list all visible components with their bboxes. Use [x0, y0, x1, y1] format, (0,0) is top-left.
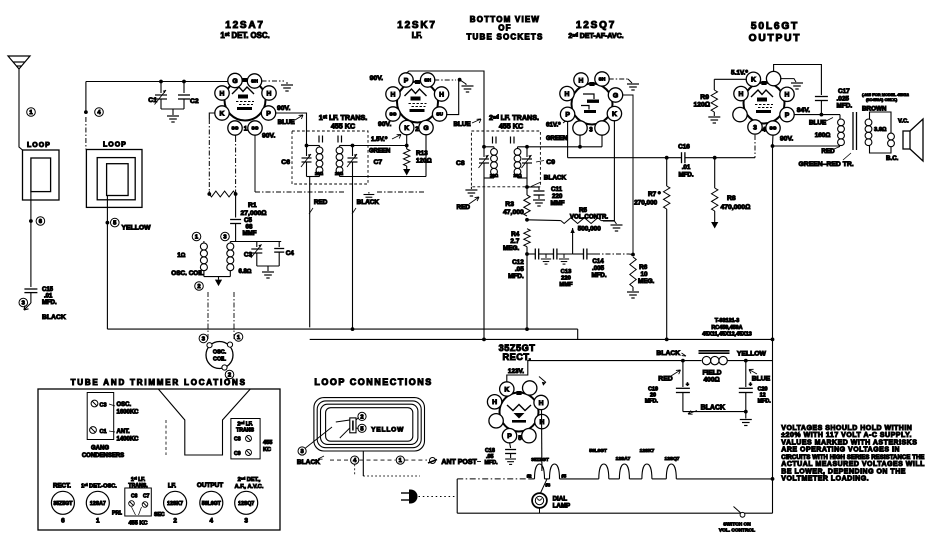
svg-text:12SA7: 12SA7 — [225, 20, 265, 31]
2nd IF transformer shield box (dashed) — [471, 131, 540, 187]
svg-text:C12: C12 — [512, 259, 524, 266]
tube V2 12SK7 pin K — [400, 120, 414, 134]
tube V2 12SK7 pin P — [399, 73, 413, 87]
tube V4 50L6GT pin SG — [766, 121, 780, 135]
wire V5 cathode to heater feed — [507, 361, 683, 383]
svg-text:1Ω: 1Ω — [177, 252, 185, 259]
loop connections nested outline — [314, 398, 425, 451]
wire V5 heater to filament string — [541, 409, 543, 471]
svg-text:C9: C9 — [546, 159, 555, 166]
gang condenser box — [87, 393, 114, 440]
svg-text:LOOP: LOOP — [27, 142, 51, 149]
svg-text:35Z5GT: 35Z5GT — [531, 457, 549, 463]
wire V4 cathode to R9 — [714, 78, 747, 80]
tube V4 50L6GT pin H — [780, 87, 794, 101]
svg-text:R1: R1 — [248, 202, 257, 209]
svg-text:P: P — [507, 433, 512, 440]
svg-text:BLUE: BLUE — [454, 121, 471, 128]
svg-text:50L6GT: 50L6GT — [751, 21, 799, 32]
wire C19 to C20 common (BLACK) — [683, 411, 746, 413]
svg-text:SG: SG — [232, 126, 239, 132]
node 4 panel — [351, 456, 359, 464]
1st IF transformer shield box (dashed) — [292, 131, 368, 184]
svg-text:R3: R3 — [505, 201, 514, 208]
power circuit box with filament string — [456, 479, 458, 513]
svg-text:C13: C13 — [561, 269, 572, 275]
wire V1 plate to 1st IF primary — [275, 113, 306, 145]
tube locations panel box — [38, 389, 280, 530]
svg-text:C7: C7 — [143, 494, 150, 500]
svg-text:12SK7: 12SK7 — [397, 20, 437, 31]
node R8 top — [713, 156, 717, 160]
svg-text:FIELD: FIELD — [703, 370, 722, 377]
dial lamp — [532, 493, 547, 508]
svg-text:VALUES MARKED WITH ASTERISKS: VALUES MARKED WITH ASTERISKS — [781, 439, 917, 446]
svg-text:R9: R9 — [700, 94, 709, 101]
svg-text:2​ⁿᵈ DET.,: 2​ⁿᵈ DET., — [238, 476, 261, 483]
wire loop2 top to grid bus — [85, 82, 87, 113]
tube V1 12SA7 pin H — [262, 86, 276, 100]
svg-text:H: H — [220, 90, 225, 97]
oscillator coil T3 secondary — [229, 242, 231, 244]
wire V5 plate to C18 — [510, 442, 511, 448]
svg-text:1​ˢᵗ DET.-OSC.: 1​ˢᵗ DET.-OSC. — [81, 483, 117, 490]
power plug — [409, 490, 418, 504]
svg-text:H: H — [439, 91, 444, 98]
svg-text:T-93131-3: T-93131-3 — [715, 318, 740, 324]
svg-text:ANT.: ANT. — [117, 429, 131, 435]
capacitor C14 .005 MFD — [573, 253, 584, 255]
svg-text:SH: SH — [599, 77, 606, 83]
svg-text:90V.: 90V. — [370, 75, 383, 82]
speaker location outline — [158, 389, 250, 455]
wire V3 plate AF line — [568, 157, 682, 159]
node field coil right — [744, 359, 748, 363]
wire V3 SH to ground — [609, 78, 628, 80]
tube V3 12SQ7 pin (blank) — [595, 121, 609, 135]
dashed terminal row — [330, 459, 350, 461]
svg-text:#5: #5 — [562, 474, 567, 479]
svg-text:12SQ7: 12SQ7 — [238, 501, 254, 507]
svg-text:#3: #3 — [546, 483, 551, 488]
svg-text:H: H — [565, 91, 570, 98]
wire R7 bottom to B- bus — [666, 209, 668, 339]
tube V2 12SK7 pin H — [386, 87, 400, 101]
wire IF1 primary top — [307, 145, 320, 147]
node IF1 primary top — [305, 144, 309, 148]
tube V5 35Z5GT pin H — [534, 395, 548, 409]
svg-text:C2: C2 — [190, 98, 199, 105]
tube V3 12SQ7 pin P — [560, 107, 574, 121]
svg-text:A.F., A.V.C.: A.F., A.V.C. — [235, 484, 264, 490]
node IF2 primary top — [482, 145, 486, 149]
svg-text:12SQ7: 12SQ7 — [665, 456, 680, 462]
node 6 — [29, 219, 33, 223]
svg-text:SEC: SEC — [154, 512, 165, 518]
svg-text:50L6GT: 50L6GT — [202, 501, 222, 507]
svg-text:RED: RED — [457, 204, 471, 211]
ground at C1/C2 — [172, 109, 174, 115]
wire output transformer primary return (RED) — [773, 145, 841, 147]
svg-text:COIL: COIL — [213, 357, 227, 363]
svg-text:H: H — [267, 90, 272, 97]
tube V5 35Z5GT pin P — [502, 429, 516, 443]
capacitor C5 68 MMF — [230, 220, 241, 224]
svg-text:OSC.: OSC. — [213, 350, 227, 356]
wire V1 K to R1 (dash-dot) — [209, 113, 215, 119]
svg-text:C4: C4 — [286, 250, 295, 257]
capacitor C18 .05 MFD — [505, 450, 516, 454]
wire V4 plate to output transformer — [794, 114, 840, 116]
svg-text:SH: SH — [424, 78, 431, 84]
chassis arrow below R13 — [403, 166, 410, 176]
svg-text:C7: C7 — [374, 159, 383, 166]
ground at C4 — [267, 266, 269, 271]
svg-text:P: P — [404, 77, 409, 84]
svg-text:35Z5GT: 35Z5GT — [53, 501, 73, 507]
wire GREEN 1.5V to V2 cathode — [353, 145, 407, 147]
svg-text:BLACK: BLACK — [701, 405, 726, 412]
filament 50L6GT — [599, 464, 609, 479]
tube V4 50L6GT pin (blank) — [733, 107, 747, 121]
svg-text:MFD.: MFD. — [837, 103, 853, 110]
svg-text:BLUE: BLUE — [809, 120, 826, 127]
svg-text:OSC.: OSC. — [117, 402, 132, 408]
svg-text:SU: SU — [436, 112, 443, 118]
tube V5 35Z5GT envelope — [500, 393, 539, 432]
wire V1 SG1 to R1 right (dash-dot) — [235, 135, 237, 137]
svg-text:4: 4 — [762, 127, 766, 134]
svg-text:RECT.: RECT. — [502, 352, 531, 362]
tube V5 35Z5GT pin H — [535, 414, 549, 428]
node IF1 secondary top — [351, 144, 355, 148]
node field coil left — [681, 359, 685, 363]
svg-text:OF: OF — [498, 24, 512, 33]
ant post dashed link — [404, 459, 427, 461]
antenna post — [428, 458, 437, 464]
svg-text:3: 3 — [244, 518, 248, 525]
svg-text:RED: RED — [658, 376, 672, 383]
svg-text:DIAL: DIAL — [553, 496, 568, 503]
svg-text:27,000Ω: 27,000Ω — [241, 210, 267, 217]
svg-text:C11: C11 — [551, 186, 563, 193]
voice coil — [888, 133, 895, 147]
tube V2 12SK7 pin H — [434, 87, 448, 101]
svg-text:R6: R6 — [639, 264, 648, 271]
svg-text:C8: C8 — [456, 160, 465, 167]
output transformer core — [853, 112, 857, 150]
wire V2 G to IF1 secondary bottom — [425, 134, 427, 176]
svg-text:H: H — [391, 91, 396, 98]
svg-text:+: + — [749, 382, 752, 388]
wire V1 screen dropper — [254, 135, 256, 192]
wire IF2 secondary bottom to detector — [518, 177, 528, 179]
svg-text:H: H — [785, 92, 790, 99]
node R6 top — [631, 253, 635, 257]
svg-text:400Ω: 400Ω — [704, 377, 720, 384]
node 1 osc location — [234, 333, 243, 342]
svg-text:61V.*: 61V.* — [546, 122, 561, 129]
wire bus joint — [577, 329, 579, 339]
svg-text:16Ω: 16Ω — [335, 171, 344, 176]
svg-text:455: 455 — [263, 440, 272, 446]
wire R5 to V3 cathode end — [601, 220, 614, 222]
svg-text:MEG.: MEG. — [638, 278, 655, 285]
svg-text:1: 1 — [244, 126, 248, 133]
svg-text:SG: SG — [390, 112, 397, 118]
node IF2 secondary top — [525, 145, 529, 149]
wire C16 to output grid line — [685, 157, 755, 159]
svg-text:2: 2 — [415, 126, 419, 133]
loop antenna L1 — [23, 150, 60, 200]
svg-text:MFD.: MFD. — [42, 300, 57, 306]
tube V3 12SQ7 pin K — [607, 106, 621, 120]
2nd IF core — [493, 137, 515, 144]
svg-text:1600KC: 1600KC — [117, 410, 140, 416]
1st IF primary winding — [319, 146, 321, 148]
svg-text:BLACK: BLACK — [656, 350, 680, 357]
tube V2 12SK7 pin SG — [386, 107, 400, 121]
wire V2 SH dash-dot — [434, 79, 456, 81]
resistor R6 10 MEG — [630, 257, 636, 287]
tube V3 12SQ7 pin (blank) — [573, 121, 587, 135]
wire secondary to voice coil (BROWN) — [870, 112, 892, 133]
svg-text:MFD.: MFD. — [678, 172, 693, 179]
volume control R5 500000 — [527, 219, 561, 222]
svg-text:.01: .01 — [44, 294, 53, 300]
capacitor C4 (padder) — [278, 242, 280, 248]
tube V3 12SQ7 internals — [581, 82, 599, 113]
svg-text:LOOP: LOOP — [103, 142, 127, 149]
resistor R1 27000 — [207, 192, 211, 196]
ground at V1 shield — [286, 82, 288, 84]
svg-text:47,000: 47,000 — [503, 209, 524, 216]
svg-text:455 KC: 455 KC — [129, 521, 148, 527]
svg-text:84V.: 84V. — [797, 107, 810, 114]
dashed drop from node4 — [354, 464, 356, 476]
tube V2 12SK7 internals — [405, 80, 427, 112]
ground at V4 shield — [780, 79, 796, 82]
svg-text:VOLTMETER LOADING.: VOLTMETER LOADING. — [781, 476, 869, 483]
capacitor C20 12 MFD — [745, 361, 747, 387]
svg-text:K: K — [751, 77, 756, 84]
field coil L3 400 ohm — [683, 360, 702, 362]
svg-text:50L6GT: 50L6GT — [589, 448, 607, 454]
wire grid bus to 12SA7 grid — [86, 81, 229, 83]
svg-text:BLACK: BLACK — [42, 314, 66, 321]
wire IF1 primary bottom (RED lead to B+) — [307, 176, 320, 178]
wire V4 screen to B+ node — [772, 135, 775, 145]
svg-text:H: H — [492, 399, 497, 406]
power box bottom — [457, 512, 772, 514]
tube V4 50L6GT pin (blank) — [766, 71, 780, 85]
wire osc coil common — [204, 276, 230, 278]
svg-text:BLUE: BLUE — [752, 376, 771, 383]
svg-text:1400KC: 1400KC — [117, 437, 140, 443]
svg-text:BE LOWER, DEPENDING ON THE: BE LOWER, DEPENDING ON THE — [781, 468, 906, 475]
wire C5 to osc coil — [235, 224, 237, 242]
node 1 osc coil — [192, 232, 201, 241]
svg-text:K: K — [404, 125, 409, 132]
wire C3 C4 common — [257, 265, 279, 267]
svg-text:P: P — [266, 110, 271, 117]
ground below R6 — [632, 287, 634, 291]
svg-text:C14: C14 — [592, 258, 604, 265]
resistor R4 2.7 MEG — [524, 229, 530, 247]
tube V4 50L6GT pin K — [746, 72, 760, 86]
ground at osc coil — [215, 277, 222, 287]
tube V5 35Z5GT pin (blank) — [489, 414, 503, 428]
wire right frame (B+ feed) — [772, 145, 774, 513]
svg-text:CONDENSERS: CONDENSERS — [82, 453, 124, 459]
tube V5 35Z5GT pin K — [500, 382, 514, 396]
svg-text:.025: .025 — [837, 96, 850, 103]
svg-text:KC: KC — [263, 447, 271, 453]
loop antenna L2 (3 turns) — [86, 150, 142, 208]
svg-text:500,000: 500,000 — [578, 226, 602, 233]
node 4 — [84, 110, 88, 114]
svg-text:C6: C6 — [281, 159, 290, 166]
svg-text:C17: C17 — [838, 88, 850, 95]
tube V4 50L6GT pin 3 — [748, 120, 762, 134]
svg-text:2: 2 — [360, 415, 363, 421]
svg-text:10: 10 — [641, 271, 649, 278]
wire AVC dash-dot line — [255, 191, 345, 193]
svg-text:G: G — [423, 125, 428, 132]
tube V1 12SA7 pin K — [215, 106, 229, 120]
output transformer T4 secondary winding — [865, 119, 872, 146]
svg-text:MMF: MMF — [551, 200, 565, 207]
wire panel center down — [362, 451, 364, 476]
ground at V2 shield — [460, 80, 466, 85]
wire V3 grid to R6 (AVC) — [622, 95, 633, 255]
trimmer C6 — [306, 146, 308, 157]
svg-text:MFD.: MFD. — [645, 399, 659, 405]
oscillator coil T3 primary — [203, 241, 205, 243]
trimmer C1 location — [90, 427, 97, 434]
wire V2 suppressor to shield — [446, 80, 459, 115]
2nd IF trans location box — [231, 419, 260, 459]
svg-text:BLACK: BLACK — [544, 175, 567, 182]
svg-text:120Ω: 120Ω — [416, 158, 432, 165]
tube V2 12SK7 pin SU — [432, 107, 446, 121]
svg-text:12SQ7: 12SQ7 — [576, 20, 616, 31]
svg-text:#2: #2 — [527, 474, 532, 479]
tube V1 12SA7 pin G — [228, 73, 242, 87]
svg-text:+: + — [686, 382, 689, 388]
svg-text:OUTPUT: OUTPUT — [749, 33, 802, 44]
resistor R8 470000 — [714, 158, 716, 188]
wire V3 cathode to ground — [613, 120, 615, 221]
svg-text:BLACK: BLACK — [297, 459, 320, 466]
svg-text:YELLOW: YELLOW — [122, 225, 152, 232]
filament 35Z5GT — [535, 464, 560, 479]
wire voice coil return — [870, 146, 892, 153]
node 5 — [106, 221, 110, 225]
svg-text:RED: RED — [314, 199, 328, 206]
svg-text:16Ω: 16Ω — [513, 173, 522, 178]
wire B- bus lower — [310, 338, 773, 340]
1st IF core — [319, 136, 342, 143]
svg-text:6.8Ω: 6.8Ω — [239, 269, 252, 275]
svg-text:SH: SH — [251, 79, 258, 85]
node 1 panel — [396, 456, 404, 464]
svg-text:RC459,459A: RC459,459A — [711, 325, 742, 331]
node 3 osc coil — [221, 232, 230, 241]
svg-text:C8: C8 — [234, 437, 241, 443]
resistor R3 47000 — [526, 187, 528, 195]
svg-text:SG: SG — [252, 126, 259, 132]
svg-text:2: 2 — [173, 518, 177, 525]
svg-text:3: 3 — [753, 124, 757, 131]
svg-text:MFD.: MFD. — [485, 460, 499, 466]
wire C1 C2 common — [161, 108, 184, 110]
svg-text:220: 220 — [552, 193, 563, 200]
tube V1 12SA7 internals — [232, 78, 254, 110]
svg-text:P: P — [785, 112, 790, 119]
wire osc grid bus to C3 C4 — [230, 241, 281, 243]
svg-text:ANT POST: ANT POST — [441, 459, 477, 466]
svg-text:5: 5 — [518, 435, 522, 442]
wire audio node down to B- bus — [526, 254, 528, 329]
svg-text:G: G — [232, 78, 237, 85]
tube V1 12SA7 envelope — [225, 80, 266, 121]
tube V4 50L6GT pin H — [734, 86, 748, 100]
svg-text:H: H — [739, 91, 744, 98]
svg-text:3: 3 — [589, 127, 593, 134]
R5 wiper arm — [572, 228, 574, 254]
svg-text:270,000: 270,000 — [634, 200, 658, 207]
wire loop2 bottom (YELLOW) to B- bus — [106, 196, 108, 330]
svg-text:12SA7: 12SA7 — [90, 501, 106, 507]
wire IF2 sec bottom to C11/R3 node — [525, 185, 529, 189]
svg-text:45X11,45X12,45X13: 45X11,45X12,45X13 — [702, 332, 751, 338]
svg-text:R4: R4 — [511, 231, 520, 238]
svg-text:ACTUAL MEASURED VOLTAGES WILL: ACTUAL MEASURED VOLTAGES WILL — [781, 461, 925, 468]
tube V2 12SK7 pin SH — [420, 73, 434, 87]
tube V3 12SQ7 pin G — [608, 88, 622, 102]
ground between C12 C13 — [539, 253, 554, 255]
wire to node 3 panel — [306, 427, 333, 448]
svg-text:MFD.: MFD. — [508, 273, 524, 280]
panel wiring — [336, 417, 359, 438]
svg-text:SWITCH ON: SWITCH ON — [723, 522, 751, 528]
svg-text:1: 1 — [96, 518, 100, 525]
ground below R9 — [713, 112, 715, 116]
node R3/R4/R5 — [525, 218, 529, 222]
svg-text:TUBE AND TRIMMER LOCATIONS: TUBE AND TRIMMER LOCATIONS — [71, 378, 247, 387]
tube V2 12SK7 envelope — [397, 82, 438, 123]
svg-text:12SA7: 12SA7 — [616, 456, 631, 462]
trimmer C9 — [526, 147, 528, 157]
ground after C13 — [557, 253, 573, 255]
node 2 osc location — [225, 370, 234, 379]
tube V4 50L6GT internals — [751, 81, 773, 113]
2nd IF primary winding — [484, 146, 494, 148]
svg-text:LAMP: LAMP — [553, 503, 571, 510]
resistor R7 270000 — [664, 186, 670, 209]
svg-text:PRI.: PRI. — [112, 511, 123, 517]
svg-text:2: 2 — [197, 284, 200, 290]
svg-text:C3: C3 — [244, 252, 253, 259]
capacitor C3 (osc tuning, variable) — [256, 242, 258, 248]
svg-text:OUTPUT: OUTPUT — [197, 482, 223, 489]
svg-text:BLUE: BLUE — [278, 119, 295, 126]
output transformer T4 primary winding — [839, 115, 841, 119]
tube V3 12SQ7 pin H — [574, 73, 588, 87]
tube V5 35Z5GT pin (blank) — [522, 429, 536, 443]
capacitor C19 20 MFD — [682, 361, 684, 387]
